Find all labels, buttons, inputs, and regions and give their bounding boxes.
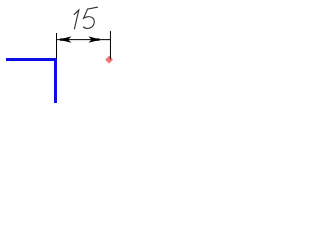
arrowhead right <box>88 36 100 42</box>
dimension text "15" digit 5 <box>83 7 98 28</box>
dimension line <box>57 39 110 41</box>
snap marker (red diamond) <box>106 56 113 63</box>
blue polyline corner (horizontal + vertical selected geometry) <box>6 60 56 104</box>
background <box>0 0 133 112</box>
arrowhead left <box>59 36 72 42</box>
dimension text "15" digit 1 <box>74 10 79 29</box>
left extension line <box>56 33 58 58</box>
right extension line <box>109 31 111 59</box>
